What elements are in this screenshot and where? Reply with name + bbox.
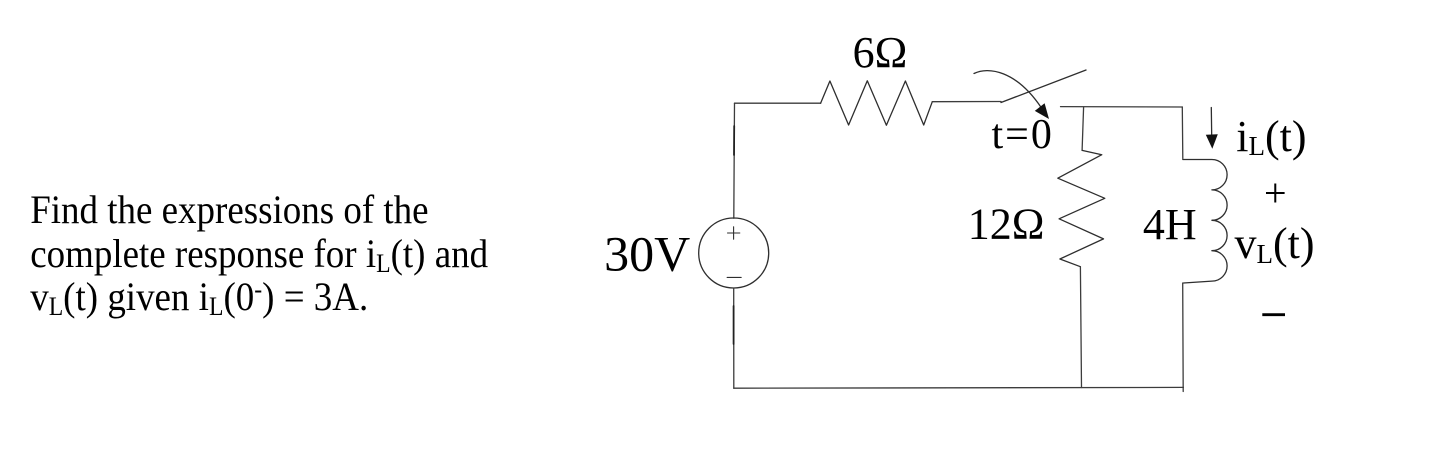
voltage source minus sign: [727, 276, 741, 278]
wire: left vertical bottom (source to bottom rail): [733, 288, 735, 388]
current arrow iL line: [1210, 108, 1212, 137]
wire: inductor branch bottom vertical: [1182, 283, 1185, 392]
wire: switch right node to top-right corner: [1061, 106, 1183, 108]
svg-text:30V: 30V: [604, 225, 690, 281]
resistor R 12ohm (vertical zigzag): [1058, 150, 1105, 266]
svg-text:vL(t) given iL(0-) = 3A.: vL(t) given iL(0-) = 3A.: [30, 274, 368, 321]
wire: left vertical dark overlap segment: [733, 126, 735, 155]
svg-text:vL(t): vL(t): [1235, 219, 1315, 269]
svg-text:iL(t): iL(t): [1236, 112, 1306, 161]
switch SW blade (open): [1001, 70, 1086, 103]
resistor R 6ohm (zigzag): [821, 81, 933, 125]
current arrow iL head: [1206, 134, 1218, 149]
wire: left vertical bottom dark overlap segment: [733, 306, 735, 344]
svg-text:Find the expressions of the: Find the expressions of the: [30, 187, 428, 232]
wire: 12ohm top stub: [1082, 107, 1084, 150]
switch closing arc: [974, 71, 1042, 108]
wire: left vertical top (corner to source): [733, 103, 736, 218]
svg-text:12Ω: 12Ω: [968, 200, 1045, 249]
problem statement text line 2: [30, 232, 488, 279]
label minus polarity: [1262, 313, 1285, 316]
wire: top-left horizontal from corner to resistor: [735, 102, 821, 104]
voltage source VS circle: [699, 218, 769, 288]
wire: inductor branch top vertical: [1181, 107, 1184, 159]
svg-text:t=0: t=0: [992, 112, 1054, 158]
wire: bottom rail: [734, 386, 1184, 389]
switch arc arrowhead: [1035, 103, 1049, 119]
svg-text:complete response for iL(t) an: complete response for iL(t) and: [30, 232, 488, 279]
problem statement text line 3: [30, 274, 368, 321]
problem statement text line 1: [30, 187, 428, 232]
svg-text:4H: 4H: [1143, 200, 1197, 249]
inductor L 4H (4 bumps): [1183, 160, 1227, 284]
voltage source plus sign: [728, 227, 740, 239]
svg-text:6Ω: 6Ω: [853, 28, 908, 77]
wire: 12ohm bottom stub: [1080, 267, 1081, 388]
wire: resistor to switch left node: [932, 101, 1001, 103]
svg-text:+: +: [1264, 171, 1287, 216]
